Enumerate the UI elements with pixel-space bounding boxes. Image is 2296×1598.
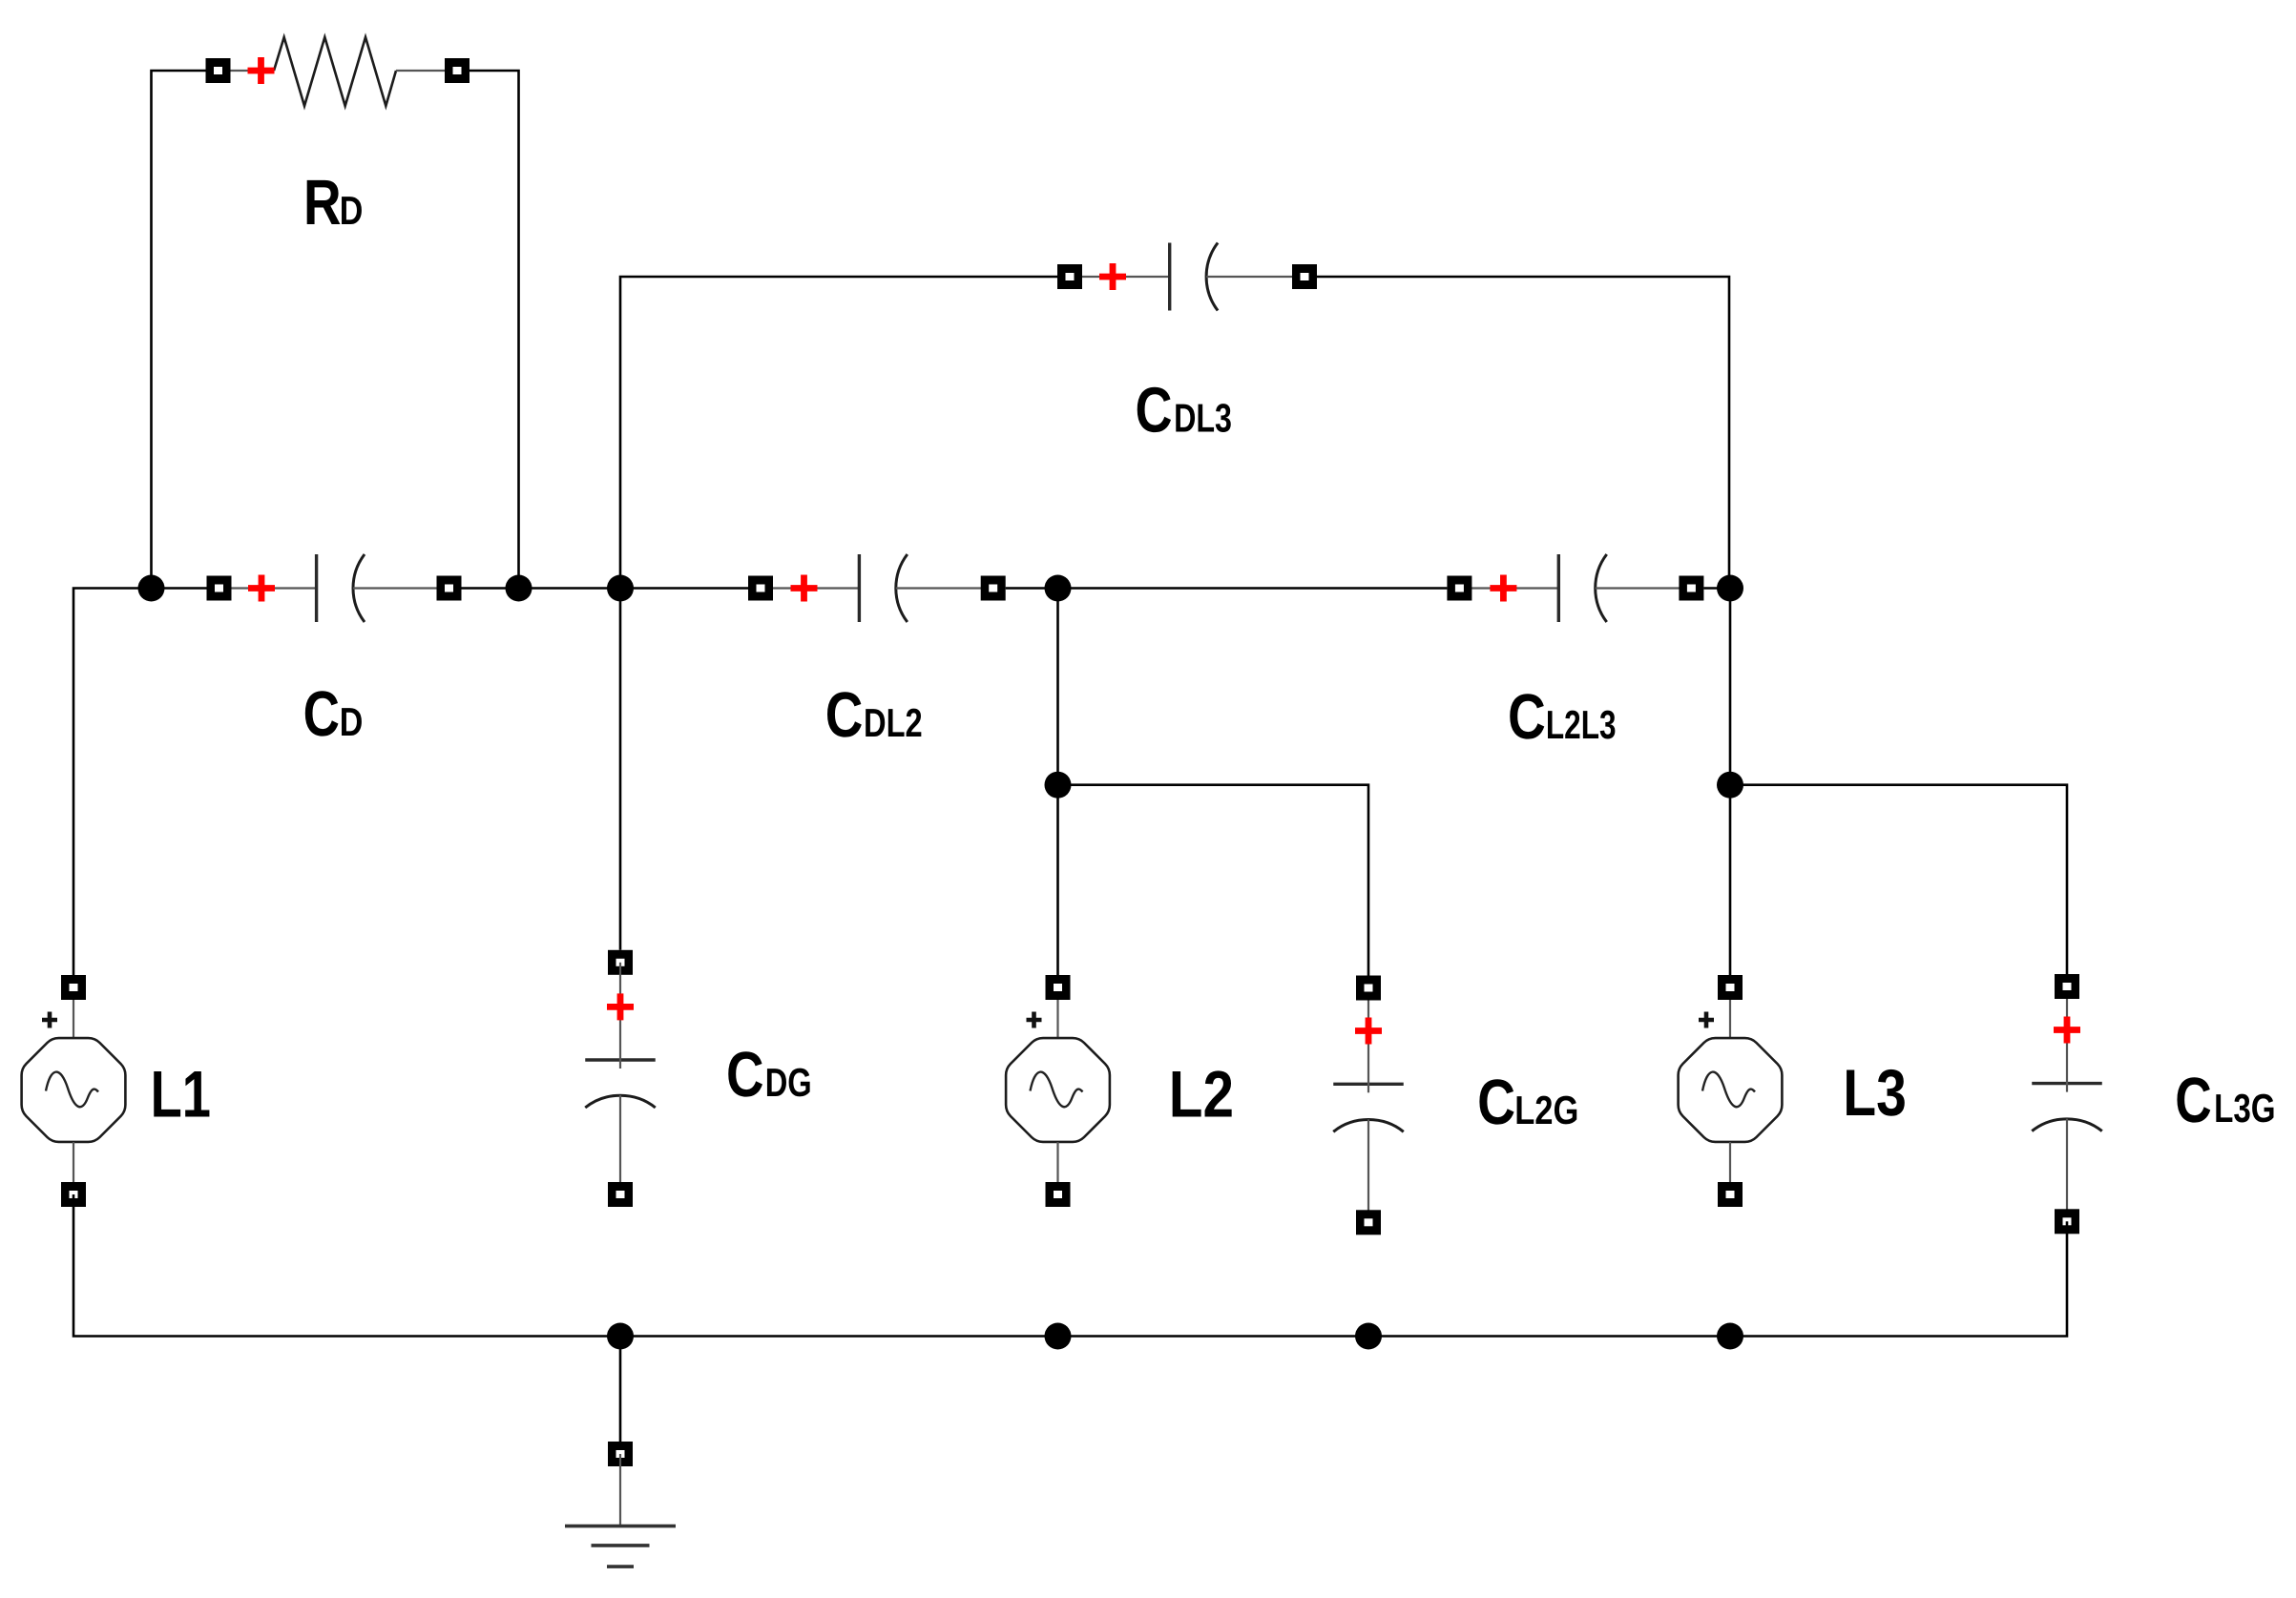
terminal CL2L3 right — [1679, 576, 1703, 601]
label RD — [303, 167, 363, 239]
svg-text:L3G: L3G — [2214, 1086, 2276, 1131]
terminal L1 top — [61, 975, 86, 1000]
polarity + of L3 — [1699, 1012, 1714, 1028]
svg-text:L1: L1 — [151, 1058, 211, 1131]
label CL2L3 — [1508, 681, 1617, 753]
label CDG — [726, 1039, 812, 1110]
label CDL3 — [1136, 375, 1233, 446]
capacitor CDG — [585, 1010, 656, 1194]
wire CDG top lead — [619, 963, 621, 1010]
label L1 — [151, 1058, 211, 1131]
AC source L1 — [22, 987, 126, 1194]
wire node D up and right to CDL3 — [620, 277, 1057, 589]
AC source L2 — [1006, 987, 1110, 1194]
terminal L3 bottom — [1718, 1182, 1743, 1207]
ground — [565, 1454, 676, 1567]
polarity + of CD — [248, 575, 275, 602]
svg-text:D: D — [340, 699, 364, 744]
capacitor CL2L3 — [1459, 554, 1691, 622]
svg-text:C: C — [1136, 375, 1173, 446]
svg-text:D: D — [340, 188, 364, 233]
capacitor CDL3 — [1070, 243, 1305, 311]
polarity + of RD — [248, 57, 275, 84]
junction node L2 branch — [1045, 772, 1072, 799]
terminal CD right — [437, 576, 462, 601]
polarity + of L1 — [42, 1012, 57, 1028]
svg-text:DG: DG — [765, 1060, 812, 1105]
label CDL2 — [825, 679, 923, 751]
AC source L3 — [1679, 987, 1783, 1194]
svg-text:C: C — [1508, 681, 1546, 753]
polarity + of CDL2 — [791, 575, 818, 602]
terminal CDL3 right — [1292, 264, 1317, 289]
svg-text:C: C — [726, 1039, 764, 1110]
capacitor CD — [219, 554, 449, 622]
label L2 — [1169, 1058, 1234, 1131]
label CL2G — [1477, 1067, 1578, 1138]
terminal CL2G bottom — [1356, 1210, 1381, 1235]
wire bottom bus — [73, 1194, 2067, 1337]
svg-text:L2G: L2G — [1514, 1088, 1578, 1132]
terminal CDG bottom — [608, 1182, 633, 1207]
svg-text:C: C — [1477, 1067, 1515, 1138]
wire L1 top to main row — [73, 589, 207, 976]
polarity + of CDG — [607, 993, 634, 1020]
terminal ground — [608, 1442, 633, 1466]
polarity + of CL3G — [2054, 1017, 2080, 1044]
terminal L1 bottom — [61, 1182, 86, 1207]
resistor RD — [219, 37, 458, 106]
capacitor CL3G — [2032, 986, 2102, 1221]
svg-text:C: C — [825, 679, 864, 751]
svg-text:L2L3: L2L3 — [1546, 702, 1617, 747]
label CL3G — [2175, 1065, 2275, 1136]
svg-text:DL3: DL3 — [1174, 396, 1232, 441]
junction node L2 main — [1045, 575, 1072, 602]
terminal CL2G top — [1356, 976, 1381, 1001]
junction node ground bus CDG — [607, 1323, 634, 1350]
terminal CL2L3 left — [1447, 576, 1472, 601]
terminal CDL3 left — [1057, 264, 1082, 289]
terminal CL3G bottom — [2055, 1209, 2079, 1234]
junction node L3 branch — [1717, 772, 1743, 799]
junction node ground bus L3 — [1717, 1323, 1743, 1350]
terminal CDG top — [608, 950, 633, 975]
terminal CDL2 right — [981, 576, 1006, 601]
svg-text:L2: L2 — [1169, 1058, 1234, 1131]
wire CDL2 right terminal to CL2L3 left terminal — [1006, 587, 1448, 590]
terminal CL3G top — [2055, 974, 2079, 999]
junction node B (RD/CD out) — [506, 575, 532, 602]
junction node A (L1/RD/CD) — [138, 575, 165, 602]
wire ground stub — [619, 1337, 622, 1442]
svg-text:DL2: DL2 — [864, 700, 923, 745]
wire CD right terminal to CDL2 left terminal — [462, 587, 749, 590]
wire L3 node to CL3G — [1730, 785, 2067, 974]
wire L2 node to CL2G — [1058, 785, 1369, 976]
junction node ground bus L2 — [1045, 1323, 1072, 1350]
svg-text:C: C — [303, 678, 340, 750]
polarity + of CDL3 — [1099, 263, 1126, 290]
wire CL2L3 right terminal to node — [1703, 587, 1730, 590]
wire L2 column — [1056, 589, 1059, 976]
junction node ground bus CL2G — [1355, 1323, 1382, 1350]
wire RD right to loop corner down to main row — [470, 71, 519, 589]
junction node L3 main — [1717, 575, 1743, 602]
wire L3 column — [1729, 589, 1732, 976]
terminal L2 top — [1046, 975, 1071, 1000]
terminal RD left — [206, 58, 231, 83]
label CD — [303, 678, 364, 750]
terminal L2 bottom — [1046, 1182, 1071, 1207]
terminal L3 top — [1718, 975, 1743, 1000]
junction node D (CD/CDL2/CDL3/CDG) — [607, 575, 634, 602]
capacitor CL2G — [1333, 988, 1404, 1223]
polarity + of CL2G — [1355, 1018, 1382, 1045]
polarity + of L2 — [1027, 1012, 1042, 1028]
wire top-left loop (RD left vertical + top) — [152, 71, 206, 589]
terminal CD left — [207, 576, 232, 601]
wire CDL3 right to L3 column — [1317, 277, 1729, 589]
capacitor CDL2 — [761, 554, 993, 622]
terminal RD right — [445, 58, 470, 83]
terminal CDL2 left — [748, 576, 773, 601]
svg-text:C: C — [2175, 1065, 2212, 1136]
wire node D down to CDG — [619, 589, 622, 950]
svg-text:L3: L3 — [1843, 1056, 1907, 1130]
polarity + of CL2L3 — [1490, 575, 1516, 602]
label L3 — [1843, 1056, 1907, 1130]
svg-text:R: R — [303, 167, 342, 239]
